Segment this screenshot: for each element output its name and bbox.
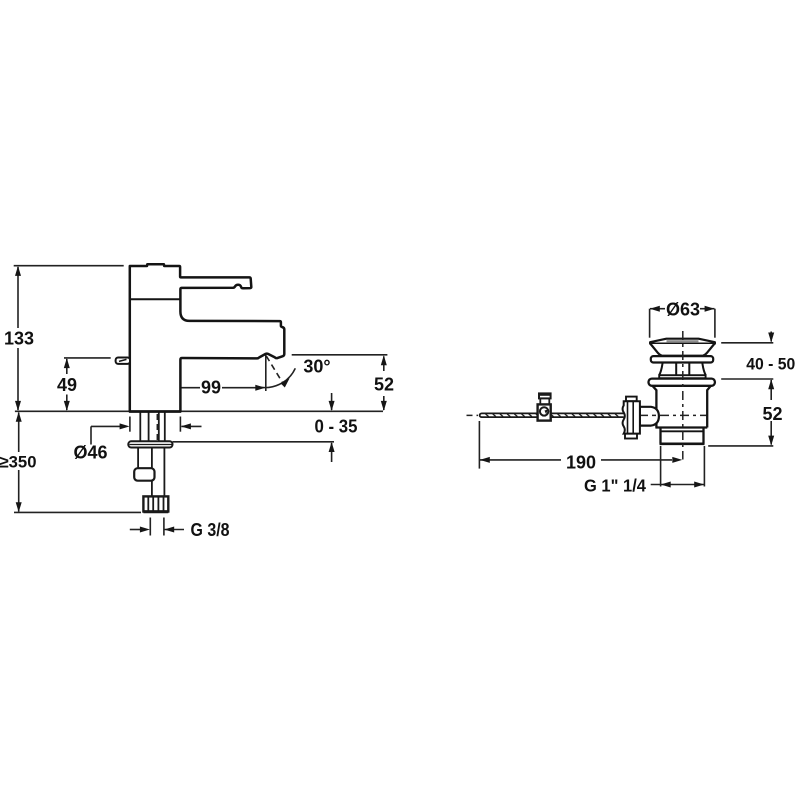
svg-text:40 - 50: 40 - 50: [746, 355, 795, 374]
svg-text:Ø46: Ø46: [73, 443, 107, 463]
svg-text:52: 52: [762, 404, 782, 424]
svg-text:30°: 30°: [303, 356, 330, 376]
svg-text:G 3/8: G 3/8: [191, 520, 230, 540]
svg-text:49: 49: [57, 375, 77, 395]
svg-text:52: 52: [374, 375, 394, 395]
svg-text:133: 133: [4, 329, 34, 349]
svg-text:0 - 35: 0 - 35: [315, 417, 358, 437]
svg-text:G 1" 1/4: G 1" 1/4: [584, 475, 646, 495]
svg-text:190: 190: [566, 453, 596, 473]
svg-text:≥350: ≥350: [0, 453, 37, 472]
svg-text:99: 99: [201, 378, 221, 398]
svg-text:Ø63: Ø63: [666, 300, 700, 320]
